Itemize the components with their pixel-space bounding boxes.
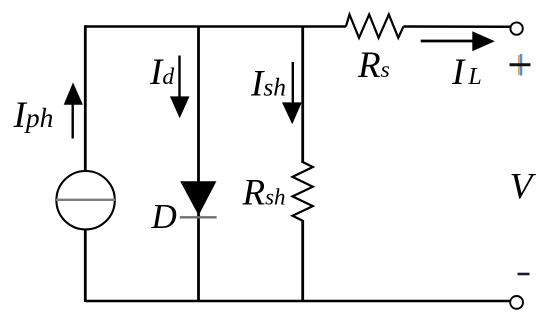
arrow Iph (photocurrent direction, up) <box>64 82 83 138</box>
wire top rail right segment (Rs to + terminal) <box>403 25 510 28</box>
svg-text:Iph: Iph <box>13 95 54 136</box>
resistor Rs (series resistor, zigzag) <box>346 15 404 38</box>
terminal + (output node, open circle) <box>510 22 522 34</box>
wire left branch lower (current source to bottom rail) <box>84 229 87 302</box>
arrow IL (load current) <box>421 31 495 51</box>
resistor Rsh (shunt resistor, vertical zigzag) <box>293 162 313 221</box>
wire shunt branch lower (Rsh to bottom rail) <box>301 220 304 301</box>
label + (positive terminal sign) <box>510 54 531 76</box>
svg-text:Rs: Rs <box>357 45 390 86</box>
svg-text:IL: IL <box>451 52 482 93</box>
diode D (triangle cathode down) <box>180 181 217 217</box>
arrow Id (diode current, down) <box>170 56 190 119</box>
svg-text:Rsh: Rsh <box>242 173 286 214</box>
wire diode branch (top rail to bottom rail through diode D) <box>197 27 200 302</box>
arrow Ish (shunt current, down) <box>282 62 302 124</box>
wire shunt branch upper (top rail to Rsh) <box>301 27 304 164</box>
wire bottom rail <box>85 300 510 303</box>
svg-text:D: D <box>151 197 177 236</box>
label - (negative terminal sign) <box>518 273 530 276</box>
wire top rail left segment (node A to Rs) <box>85 25 346 28</box>
svg-text:V: V <box>510 167 537 208</box>
svg-text:Id: Id <box>149 52 174 93</box>
svg-text:Ish: Ish <box>250 64 286 105</box>
terminal - (output node, open circle) <box>510 296 523 309</box>
wire left branch upper (top rail to current source) <box>84 25 87 171</box>
current source Iph (photocurrent source circle) <box>56 171 115 229</box>
